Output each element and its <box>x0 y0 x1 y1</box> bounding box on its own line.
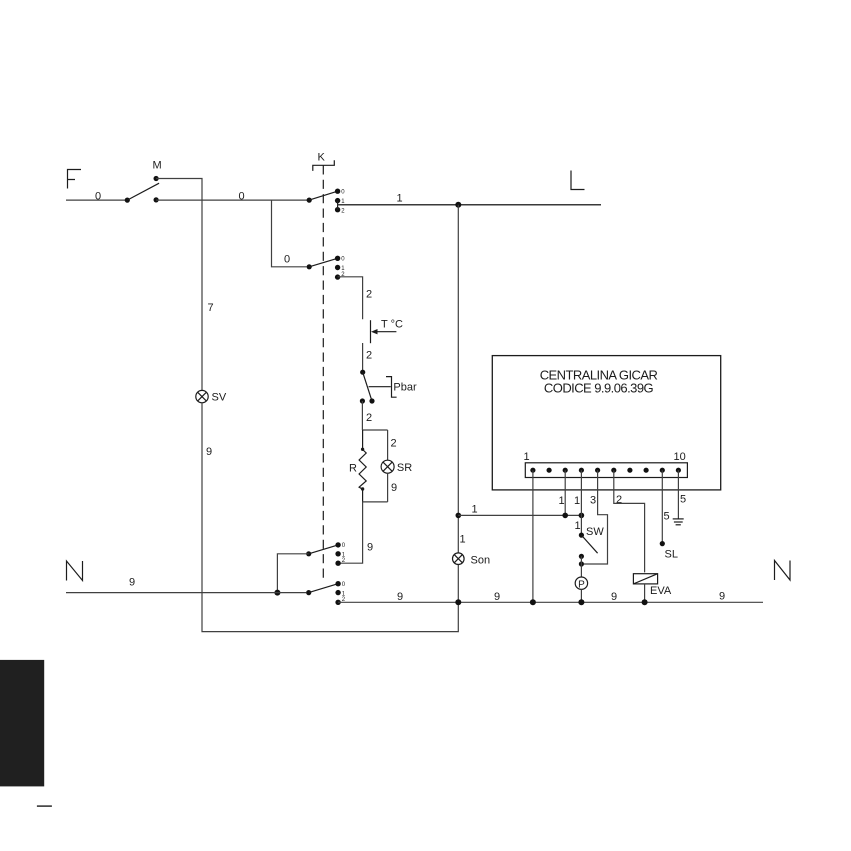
black square <box>0 660 44 787</box>
wire 1 to terminals <box>458 514 581 516</box>
ground <box>673 519 684 525</box>
svg-text:1: 1 <box>472 503 478 515</box>
node junction N line Son <box>455 599 461 605</box>
svg-text:1: 1 <box>397 193 403 205</box>
svg-text:9: 9 <box>611 591 617 603</box>
svg-text:1: 1 <box>559 495 565 507</box>
node junction N line P <box>578 599 584 605</box>
wire T4 to SW <box>580 470 582 535</box>
svg-text:9: 9 <box>391 482 397 494</box>
svg-text:9: 9 <box>719 590 725 602</box>
label L <box>571 171 585 190</box>
wire T3 down <box>564 470 566 515</box>
svg-text:P: P <box>578 579 585 590</box>
lamp Son <box>453 553 465 565</box>
node T3 junction <box>562 513 568 519</box>
svg-text:9: 9 <box>129 577 135 589</box>
switch SW <box>579 533 598 578</box>
wire SV to bottom detour <box>202 403 458 632</box>
svg-text:2: 2 <box>366 412 372 424</box>
svg-text:CODICE 9.9.06.39G: CODICE 9.9.06.39G <box>544 381 654 396</box>
wire Pbar to parallel block <box>361 401 363 430</box>
wire parallel bottom <box>362 501 387 503</box>
wire T5 bypass <box>584 470 608 564</box>
svg-text:1: 1 <box>575 520 581 532</box>
svg-text:SL: SL <box>665 549 678 561</box>
wire P to N <box>580 589 582 602</box>
svg-text:0: 0 <box>95 191 101 203</box>
wire M to K1 <box>156 199 309 201</box>
svg-text:Son: Son <box>471 555 491 567</box>
svg-text:SR: SR <box>397 462 412 474</box>
terminal strip <box>525 463 687 478</box>
terminal dots <box>530 468 681 473</box>
node T4 junction <box>579 513 585 519</box>
wire T10 to ground <box>677 470 679 519</box>
wire branch to K2 <box>272 200 307 267</box>
Pbar pointer and bracket <box>369 377 397 398</box>
node junction N line terminal 1 <box>530 599 536 605</box>
node junction N line EVA <box>642 599 648 605</box>
svg-text:2: 2 <box>616 494 622 506</box>
wire line1 junction down to Son <box>457 205 459 603</box>
svg-text:SW: SW <box>586 526 604 538</box>
svg-text:T °C: T °C <box>381 319 403 331</box>
wire T9 SL <box>661 470 663 543</box>
svg-text:3: 3 <box>590 495 596 507</box>
label N left <box>67 561 83 581</box>
svg-text:EVA: EVA <box>650 585 672 597</box>
pressure sensor P <box>575 577 587 589</box>
wire SR branch bottom <box>387 473 389 502</box>
node junction on line 1 <box>455 202 461 208</box>
contact K3 <box>306 542 341 566</box>
svg-text:0: 0 <box>239 191 245 203</box>
wire K2 to thermostat <box>338 277 363 320</box>
wire F to M <box>66 199 127 201</box>
svg-text:9: 9 <box>367 542 373 554</box>
svg-text:10: 10 <box>674 451 686 463</box>
node junction left N <box>274 590 280 596</box>
wire M top to SV <box>156 179 202 391</box>
K bracket <box>313 160 335 171</box>
pressure switch Pbar <box>360 370 375 404</box>
svg-text:5: 5 <box>664 510 670 522</box>
svg-text:2: 2 <box>391 438 397 450</box>
svg-text:9: 9 <box>494 591 500 603</box>
svg-text:Pbar: Pbar <box>393 382 417 394</box>
contact K1 <box>307 189 341 213</box>
lamp SV <box>196 390 208 402</box>
svg-text:2: 2 <box>366 289 372 301</box>
wire K3 to N junction <box>277 554 308 593</box>
lamp SR <box>381 460 394 473</box>
thermostat T°C <box>371 320 397 343</box>
label F <box>68 170 82 189</box>
svg-text:7: 7 <box>208 302 214 314</box>
dash mark <box>37 805 52 807</box>
wire N left <box>66 592 306 594</box>
svg-text:SV: SV <box>212 392 227 404</box>
svg-text:M: M <box>153 160 162 172</box>
node junction Son top <box>456 513 462 519</box>
solenoid EVA <box>633 574 657 584</box>
contact K4 <box>306 581 341 605</box>
wire T1 to N <box>532 470 534 602</box>
label N right <box>775 561 791 581</box>
wire 1 to L <box>338 204 601 206</box>
wire thermostat to Pbar <box>362 343 364 372</box>
svg-text:1: 1 <box>460 534 466 546</box>
svg-text:5: 5 <box>680 494 686 506</box>
wire parallel block to K3 <box>341 502 363 563</box>
wire parallel top <box>362 429 387 431</box>
svg-text:9: 9 <box>206 446 212 458</box>
node SL <box>660 541 665 546</box>
svg-text:0: 0 <box>284 254 290 266</box>
svg-text:R: R <box>349 463 357 475</box>
svg-text:2: 2 <box>366 350 372 362</box>
box CENTRALINA <box>492 356 720 490</box>
resistor R <box>359 430 366 502</box>
dashed line K <box>322 165 324 580</box>
svg-text:K: K <box>318 152 326 164</box>
switch M <box>125 176 159 203</box>
svg-text:9: 9 <box>397 591 403 603</box>
svg-text:1: 1 <box>574 495 580 507</box>
wire EVA to N <box>644 584 646 602</box>
wire N right <box>338 601 763 603</box>
svg-text:1: 1 <box>524 451 530 463</box>
contact K2 <box>307 256 341 280</box>
wire T6 to EVA <box>614 470 645 572</box>
wire SR branch top <box>387 430 389 460</box>
